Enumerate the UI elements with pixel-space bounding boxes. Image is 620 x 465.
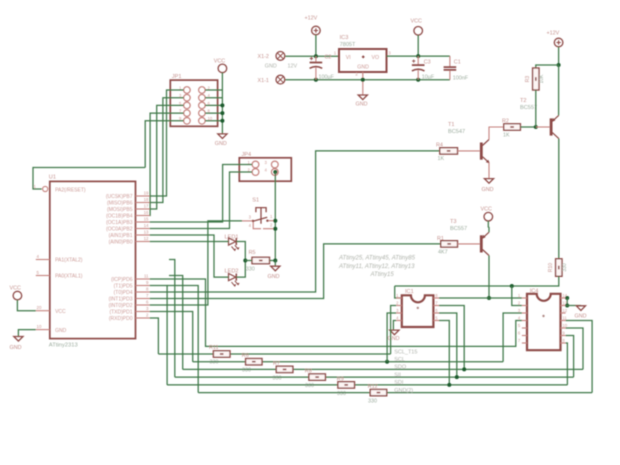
supply +12V top <box>312 26 321 35</box>
svg-text:GND: GND <box>265 64 277 70</box>
resistor R11 330 <box>213 351 230 357</box>
node junction S1 pin2 <box>273 227 277 231</box>
wire IC1 pin8 to IC4 pin1 <box>439 297 522 299</box>
svg-text:11: 11 <box>144 274 149 279</box>
svg-text:SCL_T15: SCL_T15 <box>394 349 417 355</box>
svg-text:330: 330 <box>242 368 251 374</box>
svg-text:JP4: JP4 <box>242 152 252 158</box>
node junction reset rail to IC4 <box>510 284 514 288</box>
wire U1 PB1 to LED2 <box>150 235 229 277</box>
wire IC1 pin4 to GND <box>393 321 396 331</box>
svg-text:+12V: +12V <box>305 16 318 22</box>
svg-text:VCC: VCC <box>214 58 225 64</box>
wire X1-1 bottom rail <box>285 79 450 81</box>
resistor R2 1K <box>504 124 521 130</box>
svg-text:X1-1: X1-1 <box>258 78 269 84</box>
supply +12V right <box>554 38 563 47</box>
svg-text:S1: S1 <box>252 198 259 204</box>
svg-text:10: 10 <box>37 324 42 329</box>
wire IC3 VO to VCC rail <box>387 55 450 57</box>
svg-text:ATtiny25, ATtiny45, ATtiny85: ATtiny25, ATtiny45, ATtiny85 <box>338 256 416 262</box>
wire JP1 pin5 to U1 PB5 <box>150 105 184 209</box>
svg-text:SDI: SDI <box>394 380 404 386</box>
svg-text:100nF: 100nF <box>453 76 469 82</box>
wire JP1 pin1 to U1 PB7 <box>150 90 184 196</box>
pin 14 (OC0A)PB2 <box>136 228 150 230</box>
connector JP1 <box>170 80 217 126</box>
svg-text:T1: T1 <box>448 122 455 128</box>
connector JP4 <box>239 158 291 181</box>
wire T3 collector down <box>488 256 490 299</box>
svg-text:GND(2): GND(2) <box>394 388 413 394</box>
svg-text:ATtiny11, ATtiny12, ATtiny13: ATtiny11, ATtiny12, ATtiny13 <box>338 264 415 270</box>
wire +12V to rail <box>315 35 317 56</box>
svg-text:(T1)PD5: (T1)PD5 <box>114 284 133 290</box>
svg-text:GND: GND <box>357 65 369 71</box>
capacitor C2 100uF <box>315 56 317 62</box>
node junction R9 line IC1 branch <box>447 383 451 387</box>
svg-text:R11: R11 <box>209 345 219 351</box>
node junction C3 bottom <box>416 78 420 82</box>
pin 18 (MISO)PB6 <box>136 202 150 204</box>
svg-text:330: 330 <box>273 375 282 381</box>
svg-text:VCC: VCC <box>481 207 492 213</box>
svg-text:GND: GND <box>575 314 587 320</box>
wire VCC drop <box>417 35 419 56</box>
node junction JP1 pin10 <box>220 119 224 123</box>
wire JP1 pin4 to vertical <box>205 97 222 99</box>
node junction IC4 pin13 <box>565 304 569 308</box>
wire T1 collector up to R2 <box>489 127 504 140</box>
capacitor C3 10uF <box>417 56 419 65</box>
svg-text:(INT0)PD2: (INT0)PD2 <box>109 303 133 309</box>
svg-text:(MOSI)PB5: (MOSI)PB5 <box>107 207 133 213</box>
wire LED1 cathode down to R5 node <box>236 242 245 261</box>
svg-text:VCC: VCC <box>55 309 66 315</box>
pin 6 (INT0)PD2 <box>136 304 150 306</box>
node junction R7 line IC1 branch <box>462 367 466 371</box>
wire JP1 pin9 to RESET net <box>145 121 183 168</box>
svg-text:U1: U1 <box>49 174 56 180</box>
pin 17 (MOSI)PB5 <box>136 208 150 210</box>
node junction S1 pin1 <box>273 219 277 223</box>
wire U1 PD4 to R4 trunk <box>150 151 440 292</box>
svg-text:GND: GND <box>10 345 22 351</box>
node junction C2 bottom <box>314 78 318 82</box>
svg-text:GND: GND <box>388 336 400 342</box>
svg-text:C3: C3 <box>424 59 431 65</box>
svg-text:(UCSK)PB7: (UCSK)PB7 <box>106 194 133 200</box>
wire JP1 pin6 to vertical <box>205 104 222 106</box>
svg-text:PA1(XTAL2): PA1(XTAL2) <box>55 258 83 264</box>
pin 16 (OC1B)PB4 <box>136 215 150 217</box>
svg-text:330: 330 <box>562 263 568 272</box>
pin 10 GND <box>36 329 50 331</box>
pin 19 (UCSK)PB7 <box>136 195 150 197</box>
wire +12V down <box>558 47 560 65</box>
svg-text:(ICP)PD6: (ICP)PD6 <box>111 277 133 283</box>
ground GND below JP1 <box>218 134 227 139</box>
svg-text:R3: R3 <box>525 76 531 83</box>
wire R6 line up to IC4 pin3 <box>503 313 522 362</box>
wire IC4 gnd vertical <box>566 298 568 306</box>
wire reset rail down to IC1 pin1 <box>395 286 402 298</box>
svg-text:12V: 12V <box>288 64 298 70</box>
svg-text:4K7: 4K7 <box>438 250 448 256</box>
svg-text:IC4: IC4 <box>530 289 539 295</box>
svg-text:20: 20 <box>37 305 42 310</box>
wire R2 to T2 base <box>520 126 535 128</box>
wire U1 PA1 down to R8 line <box>169 260 175 378</box>
svg-text:(AIN1)PB1: (AIN1)PB1 <box>109 233 133 239</box>
svg-text:GND: GND <box>55 328 67 334</box>
svg-text:1K: 1K <box>438 156 445 162</box>
wire R9 line <box>167 384 338 386</box>
svg-text:(OC1A)PB3: (OC1A)PB3 <box>106 220 133 226</box>
svg-text:IC1: IC1 <box>405 289 414 295</box>
wire JP1 pin2 to vertical <box>205 89 222 91</box>
pin 13 (AIN1)PB1 <box>136 234 150 236</box>
wire X1-2 to C2/IC3 <box>285 55 339 57</box>
node junction R5 right <box>273 259 277 263</box>
svg-text:1K: 1K <box>503 132 510 138</box>
pin 1 PA2/RESET bubble <box>43 186 48 191</box>
node junction JP4 pin4 <box>273 170 277 174</box>
svg-text:GND: GND <box>215 141 227 147</box>
svg-text:(T0)PD4: (T0)PD4 <box>114 290 133 296</box>
node junction T2 base <box>534 125 538 129</box>
resistor R3 10K <box>533 68 539 90</box>
svg-text:BC547: BC547 <box>448 129 465 135</box>
wire R11 line <box>158 353 213 355</box>
svg-text:(OC1B)PB4: (OC1B)PB4 <box>106 214 133 220</box>
wire R10 to reset rail <box>395 276 559 286</box>
svg-text:330: 330 <box>337 391 346 397</box>
wire R4 to T1 base <box>458 150 480 152</box>
wire VCC to T3 emitter <box>487 221 489 228</box>
svg-text:(INT1)PD3: (INT1)PD3 <box>109 297 133 303</box>
wire +12V rail to R3 <box>536 65 559 68</box>
pin 4 PA1/XTAL2 <box>36 259 50 261</box>
svg-text:GND: GND <box>482 187 494 193</box>
supply VCC top <box>414 27 423 36</box>
svg-text:R7: R7 <box>273 361 280 367</box>
node junction JP1 pin8 <box>220 111 224 115</box>
pin 2 (RXD)PD0 <box>136 317 150 319</box>
wire R5 to GND <box>274 261 276 267</box>
svg-text:R10: R10 <box>548 263 554 272</box>
resistor R4 1K <box>440 148 458 154</box>
wire T1 emitter to GND <box>488 163 490 179</box>
svg-text:GND: GND <box>268 274 280 280</box>
pin 11 (ICP)PD6 <box>136 278 150 280</box>
wire IC4 pin9 down to bus <box>566 336 574 378</box>
svg-text:R1: R1 <box>437 236 444 242</box>
svg-text:R8: R8 <box>305 369 312 375</box>
node junction IC4 pin14 <box>565 296 569 300</box>
svg-text:X1-2: X1-2 <box>258 54 269 60</box>
svg-text:SCL: SCL <box>394 357 405 363</box>
resistor R7 330 <box>276 366 293 372</box>
wire IC3 GND pin down <box>362 72 364 95</box>
capacitor C1 100nF <box>449 56 451 67</box>
svg-text:T3: T3 <box>450 219 457 225</box>
svg-text:10: 10 <box>562 323 567 328</box>
pin 8 (T0)PD4 <box>136 291 150 293</box>
node junction +12V rail <box>557 63 561 67</box>
wire R7 line <box>183 368 277 370</box>
wire IC4 pin10 down to bus <box>566 328 583 369</box>
wire JP4 pin1 to U1 PB3 <box>150 165 252 223</box>
svg-text:16: 16 <box>144 210 149 215</box>
svg-text:SDO: SDO <box>394 365 407 371</box>
wire R8 line <box>175 376 309 378</box>
svg-text:330: 330 <box>210 360 219 366</box>
svg-text:R5: R5 <box>249 250 256 256</box>
ground GND below R5 <box>271 266 280 271</box>
wire JP1 pin7 to U1 PB4 <box>150 113 184 215</box>
wire U1 PD6 to IC4 pin4 <box>150 279 522 346</box>
wire IC1 pin5 down to bus <box>439 321 449 385</box>
ic U1 ATtiny2313 <box>50 181 136 338</box>
resistor R6 330 <box>246 359 262 365</box>
ground GND at T1 <box>484 179 493 184</box>
wire R1 to T3 base <box>458 243 480 245</box>
wire IC4 pin11 down to bus <box>566 321 593 393</box>
node X1-1 pad <box>276 75 285 84</box>
regulator IC3 7805T <box>339 49 387 72</box>
svg-text:PA0(XTAL1): PA0(XTAL1) <box>55 274 83 280</box>
svg-text:R6: R6 <box>242 353 249 359</box>
wire pin10 to GND <box>18 330 35 337</box>
svg-text:18: 18 <box>144 197 149 202</box>
wire reset rail down to IC4 pin2 <box>512 286 522 306</box>
svg-text:VI: VI <box>346 55 351 61</box>
wire IC4 pin8 down to bus <box>566 343 568 385</box>
wire S1 to U1 INT0 <box>150 221 242 305</box>
wire R3 to T2 base node <box>535 90 537 127</box>
wire U1 PD5 down to R9 line <box>150 286 167 385</box>
node junction C2 top <box>314 54 318 58</box>
wire branch up to IC1 pin3 <box>387 313 396 362</box>
svg-text:(OC0A)PB2: (OC0A)PB2 <box>106 227 133 233</box>
pin 9 (T1)PD5 <box>136 285 150 287</box>
svg-text:7805T: 7805T <box>340 42 356 48</box>
resistor R9 330 <box>338 382 355 388</box>
pin 5 PA0/XTAL1 <box>36 275 50 277</box>
svg-text:PA2(/RESET): PA2(/RESET) <box>55 187 86 193</box>
node junction T3 collector <box>487 296 491 300</box>
svg-text:15: 15 <box>144 217 149 222</box>
wire IC4 pin14 to gnd node <box>566 297 568 299</box>
wire JP4 gnd vertical <box>274 172 276 261</box>
pin 20 VCC <box>36 310 50 312</box>
svg-text:R12: R12 <box>368 384 378 390</box>
svg-text:11: 11 <box>562 315 567 320</box>
pin 12 (AIN0)PB0 <box>136 241 150 243</box>
svg-text:C2: C2 <box>325 55 332 61</box>
svg-text:BC557: BC557 <box>450 226 467 232</box>
wire IC1 pin6 down to bus <box>439 313 457 377</box>
ic socket IC4 <box>527 294 561 350</box>
ic socket IC1 <box>402 295 434 327</box>
wire IC1 pin7 down to bus <box>439 306 464 370</box>
svg-text:R4: R4 <box>436 143 443 149</box>
supply VCC above T3 <box>484 212 493 221</box>
svg-text:ATtiny2313: ATtiny2313 <box>49 343 78 349</box>
svg-text:JP1: JP1 <box>172 74 182 80</box>
svg-text:100µF: 100µF <box>319 75 335 81</box>
node junction C3 top <box>416 54 420 58</box>
svg-text:(TXD)PD1: (TXD)PD1 <box>109 310 132 316</box>
svg-text:(MISO)PB6: (MISO)PB6 <box>107 201 133 207</box>
svg-text:BC557: BC557 <box>520 105 537 111</box>
resistor R1 4K7 <box>441 241 458 247</box>
svg-text:LED2: LED2 <box>225 268 239 274</box>
node junction R6 line to IC1 pin3 <box>385 360 389 364</box>
wire JP1 right vertical VCC to GND <box>221 73 223 134</box>
supply VCC above JP1 <box>218 64 227 73</box>
wire R6 line <box>193 361 246 363</box>
ground GND at U1 <box>14 337 23 342</box>
svg-text:(AIN0)PB0: (AIN0)PB0 <box>109 240 133 246</box>
pin 7 (INT1)PD3 <box>136 298 150 300</box>
wire IC4 pin13 to GND <box>566 305 581 307</box>
node X1-2 pad <box>276 52 285 61</box>
svg-text:19: 19 <box>144 191 149 196</box>
svg-text:VO: VO <box>372 55 380 61</box>
svg-text:+12V: +12V <box>547 31 560 37</box>
svg-text:(RXD)PD0: (RXD)PD0 <box>109 316 133 322</box>
svg-text:T2: T2 <box>520 98 527 104</box>
resistor R12 330 <box>370 389 387 395</box>
wire U1 PD5 row to R12 trunk <box>167 286 198 393</box>
svg-text:330: 330 <box>246 266 255 272</box>
svg-text:VCC: VCC <box>411 19 422 25</box>
svg-text:R9: R9 <box>337 377 344 383</box>
wire JP1 pin3 to U1 PB6 <box>150 98 184 203</box>
wire R11 line up to IC1 pin2 <box>391 306 397 355</box>
svg-text:GND: GND <box>356 102 368 108</box>
svg-text:13: 13 <box>144 230 149 235</box>
node junction JP1 pin6 <box>220 103 224 107</box>
wire JP1 pin8 to vertical <box>205 112 222 114</box>
supply VCC at U1 <box>13 291 22 300</box>
wire U1 PB0 to LED1 <box>150 241 229 243</box>
pin 3 (TXD)PD1 <box>136 311 150 313</box>
svg-text:14: 14 <box>144 223 149 228</box>
ground GND at IC4 <box>576 306 585 311</box>
svg-text:10µF: 10µF <box>422 75 435 81</box>
node junction R8 line IC1 branch <box>455 375 459 379</box>
svg-text:12: 12 <box>144 236 149 241</box>
wire VCC to pin20 <box>17 300 35 311</box>
resistor R10 330 <box>556 259 562 277</box>
svg-text:12: 12 <box>562 308 567 313</box>
wire JP1 pin10 to vertical <box>205 120 222 122</box>
resistor R8 330 <box>309 374 326 380</box>
ground GND at IC1 <box>390 330 399 335</box>
node junction R5 left <box>243 259 247 263</box>
svg-text:IC3: IC3 <box>340 35 349 41</box>
svg-text:10K: 10K <box>539 74 545 84</box>
svg-text:C1: C1 <box>454 59 461 65</box>
wire RESET net to U1 pin1 <box>33 168 145 190</box>
node junction IC3 gnd rail <box>361 78 365 82</box>
wire JP4 pin2 to U1 PB2 <box>150 172 252 229</box>
wire U1 PD3 to R1 trunk <box>150 244 441 299</box>
wire R12 line <box>198 392 370 394</box>
svg-text:SII: SII <box>394 372 401 378</box>
svg-text:330: 330 <box>305 383 314 389</box>
wire T2 collector down to R10 <box>558 139 560 259</box>
svg-text:330: 330 <box>368 399 377 405</box>
wire T2 emitter to +12V rail <box>558 65 560 115</box>
wire LED2 cathode up to R5 node <box>236 261 245 278</box>
svg-text:ATtiny15: ATtiny15 <box>370 272 395 278</box>
pin 15 (OC1A)PB3 <box>136 221 150 223</box>
resistor R5 330 <box>252 257 270 263</box>
svg-text:R2: R2 <box>502 119 509 125</box>
wire U1 PD2 down to R11 line <box>150 318 159 354</box>
svg-text:17: 17 <box>144 204 149 209</box>
wire U1 PD1 down to R6 line <box>150 312 193 362</box>
wire U1 PA0 down to R7 line <box>169 276 183 370</box>
svg-text:VCC: VCC <box>10 286 21 292</box>
ground GND below IC3 <box>358 95 367 100</box>
